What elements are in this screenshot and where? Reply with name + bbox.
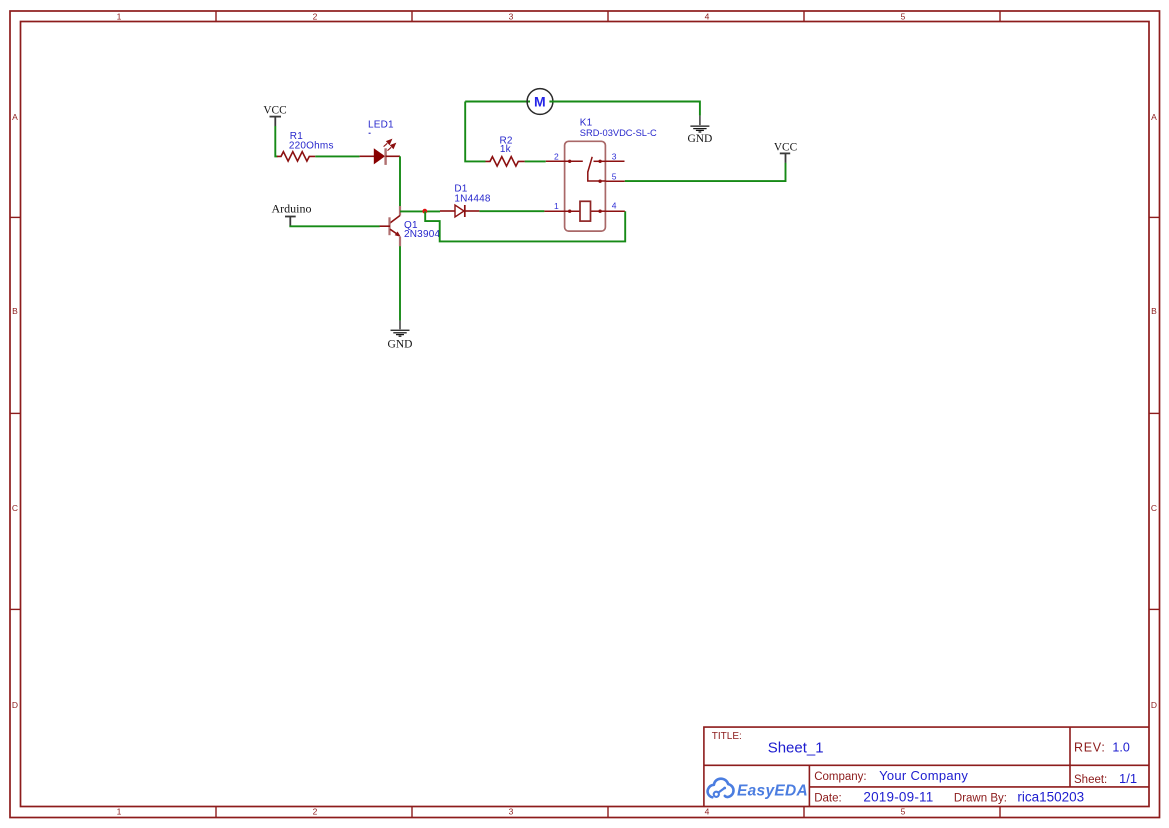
TITLEBLOCK (704, 727, 1149, 806)
svg-text:2: 2 (313, 12, 318, 22)
svg-text:VCC: VCC (263, 105, 286, 117)
svg-text:C: C (1151, 503, 1157, 513)
svg-text:D: D (1151, 700, 1157, 710)
svg-text:rica150203: rica150203 (1017, 790, 1084, 805)
svg-text:1: 1 (117, 12, 122, 22)
svg-text:1: 1 (554, 201, 559, 211)
svg-text:D: D (12, 700, 18, 710)
transistor Q1 2N3904 (390, 206, 441, 246)
svg-text:C: C (12, 503, 18, 513)
svg-text:B: B (12, 306, 18, 316)
svg-text:2N3904: 2N3904 (404, 229, 440, 240)
svg-text:Company:: Company: (814, 771, 866, 783)
wire Q1 emitter to ground (399, 246, 401, 320)
wire to motor (465, 101, 530, 103)
svg-text:Arduino: Arduino (272, 201, 312, 215)
wire VCC to R1 (275, 126, 277, 156)
svg-text:TITLE:: TITLE: (712, 731, 742, 742)
svg-text:A: A (1151, 112, 1157, 122)
wire R2 to relay pin 2 (525, 160, 546, 162)
svg-text:Sheet:: Sheet: (1074, 774, 1107, 786)
svg-text:2: 2 (554, 152, 559, 162)
wire D1 to relay pin 1 (479, 210, 544, 212)
svg-text:4: 4 (612, 200, 617, 210)
wire Q1 base pin (380, 225, 390, 227)
svg-text:4: 4 (705, 12, 710, 22)
svg-text:1/1: 1/1 (1119, 771, 1137, 786)
svg-text:SRD-03VDC-SL-C: SRD-03VDC-SL-C (580, 128, 657, 138)
power flag VCC left (263, 105, 286, 127)
svg-text:VCC: VCC (774, 142, 797, 154)
svg-text:LED1: LED1 (368, 119, 394, 130)
svg-text:GND: GND (388, 339, 413, 351)
diode D1 1N4448 (440, 184, 491, 217)
wire relay pin 5 to VCC (625, 163, 786, 182)
wire LED1 to Q1 collector (399, 156, 401, 206)
wire junction loop to relay pin 4 (425, 211, 625, 241)
LED LED1 (360, 119, 400, 164)
svg-text:1k: 1k (500, 144, 512, 155)
svg-text:220Ohms: 220Ohms (289, 140, 334, 151)
resistor R1 220Ohms (277, 131, 334, 161)
svg-text:Your Company: Your Company (879, 768, 968, 783)
svg-text:Date:: Date: (814, 793, 842, 805)
svg-text:B: B (1151, 306, 1157, 316)
svg-text:5: 5 (612, 172, 617, 182)
svg-text:3: 3 (612, 152, 617, 162)
svg-text:Sheet_1: Sheet_1 (768, 739, 824, 756)
power flag VCC right (774, 142, 797, 163)
svg-text:REV:: REV: (1074, 741, 1106, 755)
junction node (422, 209, 427, 214)
wire motor to ground (549, 102, 700, 116)
svg-text:1N4448: 1N4448 (454, 193, 490, 204)
svg-text:1: 1 (117, 806, 122, 816)
svg-text:GND: GND (687, 133, 712, 145)
svg-text:M: M (534, 94, 546, 110)
svg-text:Drawn By:: Drawn By: (954, 793, 1007, 805)
svg-text:4: 4 (705, 806, 710, 816)
wire motor branch to R2 (465, 102, 485, 162)
svg-text:2019-09-11: 2019-09-11 (863, 790, 933, 805)
svg-text:1.0: 1.0 (1112, 741, 1129, 755)
ground right (687, 116, 712, 146)
svg-text:3: 3 (509, 806, 514, 816)
resistor R2 1k (486, 135, 525, 166)
relay K1 SRD-03VDC-SL-C (544, 118, 657, 232)
svg-text:2: 2 (313, 806, 318, 816)
svg-text:EasyEDA: EasyEDA (737, 782, 808, 799)
svg-text:5: 5 (901, 806, 906, 816)
svg-text:3: 3 (509, 12, 514, 22)
wire R1 to LED1 (315, 155, 359, 157)
motor M (527, 89, 553, 115)
svg-text:5: 5 (901, 12, 906, 22)
ground under Q1 (388, 321, 413, 351)
net flag Arduino (272, 201, 312, 226)
LOGO (708, 779, 808, 800)
svg-text:A: A (12, 112, 18, 122)
wire Arduino to Q1 base (290, 225, 380, 228)
wire Q1 collector to D1 (400, 210, 440, 212)
